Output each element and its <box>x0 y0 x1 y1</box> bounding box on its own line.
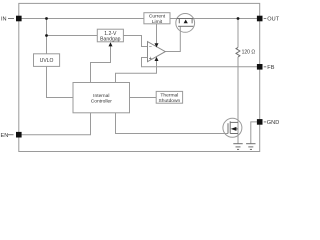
node IN junction <box>45 17 48 20</box>
pin IN <box>1 16 22 23</box>
op-amp U1 error amplifier <box>148 42 166 62</box>
pin OUT <box>257 16 280 23</box>
svg-text:Bandgap: Bandgap <box>100 37 121 43</box>
wire controller to op-amp bias <box>116 61 157 83</box>
wire resistor to discharge FET drain <box>237 57 239 144</box>
wire OUT to resistor <box>237 19 239 48</box>
pin EN <box>1 132 22 139</box>
wire FB line <box>142 58 258 67</box>
wire UVLO to controller <box>47 66 74 97</box>
svg-text:Limit: Limit <box>152 19 163 25</box>
block Thermal Shutdown <box>156 91 182 104</box>
svg-text:Shutdown: Shutdown <box>159 98 181 104</box>
wire bandgap to op-amp inverting input <box>123 36 147 47</box>
wire GND pin to ground <box>251 122 258 144</box>
arrowhead current limit into op-amp <box>155 43 159 47</box>
svg-text:+: + <box>149 56 152 62</box>
wire controller to thermal shutdown <box>130 97 157 99</box>
wire current limit to op-amp <box>156 24 158 44</box>
resistor R1 120 ohm <box>236 47 255 57</box>
wire bandgap branch <box>46 19 48 54</box>
wire current limit to pass FET <box>170 18 177 20</box>
svg-text:Thermal: Thermal <box>160 92 178 98</box>
transistor Q1 pass PMOS <box>176 14 195 33</box>
svg-text:EN: EN <box>1 133 9 139</box>
wire pass FET to OUT <box>193 18 257 20</box>
wire controller to discharge gate <box>116 113 229 134</box>
svg-text:−: − <box>149 44 152 50</box>
wire op-amp output to pass gate <box>165 26 180 51</box>
arrowhead controller into bandgap <box>109 42 113 46</box>
arrowhead controller into op-amp <box>155 57 159 61</box>
svg-text:OUT: OUT <box>267 17 279 23</box>
svg-text:120 Ω: 120 Ω <box>242 49 256 55</box>
wire bandgap feed <box>47 35 98 37</box>
svg-text:GND: GND <box>267 120 279 126</box>
svg-text:Current: Current <box>149 13 166 19</box>
block Current Limit <box>144 13 170 25</box>
block 1.2-V Bandgap <box>97 29 123 42</box>
svg-text:IN: IN <box>1 17 7 23</box>
node bandgap junction <box>45 34 48 37</box>
block UVLO <box>34 54 60 67</box>
wire IN rail <box>19 18 144 20</box>
device boundary <box>19 3 260 151</box>
ground below Q2 <box>233 144 242 150</box>
wire EN to controller <box>22 113 91 135</box>
node OUT junction <box>237 17 240 20</box>
pin GND <box>257 119 279 126</box>
pin FB <box>257 64 275 71</box>
ground at GND pin <box>246 144 255 150</box>
block Internal Controller <box>73 83 130 113</box>
wire controller to bandgap enable <box>91 46 111 82</box>
svg-text:Internal: Internal <box>93 93 109 99</box>
svg-text:Controller: Controller <box>91 99 113 105</box>
svg-text:UVLO: UVLO <box>40 58 54 64</box>
svg-text:FB: FB <box>267 65 274 71</box>
transistor Q2 discharge NMOS <box>223 118 242 137</box>
